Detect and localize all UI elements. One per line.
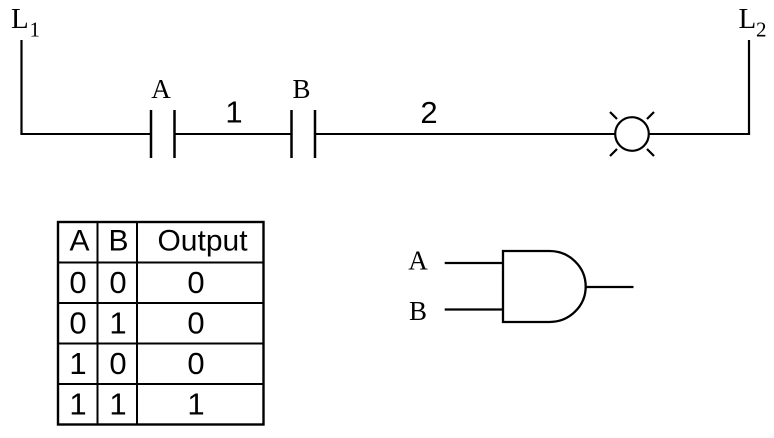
wire: L2 vertical rail <box>748 40 750 134</box>
svg-text:1: 1 <box>109 306 126 341</box>
svg-text:A: A <box>408 246 428 276</box>
wire 2: contact B to lamp <box>315 133 615 135</box>
truth table <box>58 222 264 425</box>
svg-text:1: 1 <box>109 387 126 422</box>
wire: gate input B <box>445 308 503 310</box>
contact A (normally open) <box>151 110 175 158</box>
svg-text:1: 1 <box>69 387 86 422</box>
svg-text:B: B <box>292 74 310 104</box>
svg-text:2: 2 <box>420 95 437 130</box>
svg-text:Output: Output <box>157 225 248 258</box>
svg-text:1: 1 <box>187 387 204 422</box>
svg-text:L: L <box>739 3 757 35</box>
svg-text:B: B <box>108 225 128 258</box>
lamp indicator (output coil) <box>610 112 654 156</box>
svg-text:0: 0 <box>109 265 126 300</box>
wire: lamp to L2 rail <box>649 133 750 135</box>
svg-text:1: 1 <box>225 95 242 130</box>
svg-text:A: A <box>69 225 89 258</box>
svg-text:L: L <box>11 3 29 35</box>
svg-text:1: 1 <box>69 346 86 381</box>
svg-text:B: B <box>409 296 427 326</box>
contact B (normally open) <box>292 110 316 158</box>
wire: gate output <box>586 286 634 288</box>
AND gate U1 <box>503 251 586 322</box>
svg-text:A: A <box>151 74 171 104</box>
svg-text:0: 0 <box>187 265 204 300</box>
svg-text:0: 0 <box>69 306 86 341</box>
wire 1: contact A to contact B <box>175 133 292 135</box>
svg-text:0: 0 <box>187 306 204 341</box>
svg-text:1: 1 <box>30 18 41 42</box>
wire: L1 rail to contact A <box>20 133 151 135</box>
wire: L1 vertical rail <box>20 40 22 134</box>
svg-text:0: 0 <box>69 265 86 300</box>
wire: gate input A <box>445 262 503 264</box>
svg-text:2: 2 <box>756 18 767 42</box>
svg-text:0: 0 <box>187 346 204 381</box>
svg-text:0: 0 <box>109 346 126 381</box>
